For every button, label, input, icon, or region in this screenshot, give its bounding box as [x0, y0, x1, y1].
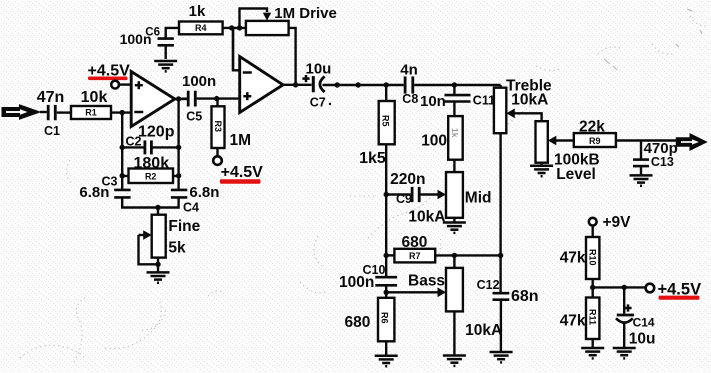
svg-text:C14: C14 — [633, 316, 655, 330]
svg-text:10kA: 10kA — [465, 322, 502, 339]
svg-text:C12: C12 — [477, 278, 500, 292]
svg-text:10n: 10n — [420, 93, 446, 110]
svg-text:R5: R5 — [380, 115, 390, 127]
svg-text:R10: R10 — [588, 249, 598, 266]
svg-text:C8: C8 — [402, 92, 418, 106]
svg-text:6.8n: 6.8n — [79, 184, 109, 201]
svg-text:R9: R9 — [589, 136, 601, 146]
svg-text:47k: 47k — [560, 313, 586, 330]
svg-text:680: 680 — [345, 314, 371, 331]
svg-text:R7: R7 — [409, 251, 421, 261]
svg-text:C5: C5 — [186, 110, 202, 124]
svg-text:1M Drive: 1M Drive — [274, 5, 337, 22]
svg-text:120p: 120p — [138, 124, 175, 141]
svg-text:C6: C6 — [145, 26, 160, 38]
svg-text:R4: R4 — [195, 23, 207, 33]
svg-text:10u: 10u — [306, 61, 332, 78]
svg-text:C4: C4 — [183, 201, 199, 215]
svg-text:1M: 1M — [230, 132, 252, 149]
svg-text:R1: R1 — [85, 108, 97, 118]
svg-text:180k: 180k — [134, 155, 170, 172]
svg-text:Fine: Fine — [168, 218, 200, 235]
svg-text:R2: R2 — [145, 171, 157, 181]
svg-text:C2: C2 — [126, 135, 142, 149]
svg-text:10kA: 10kA — [408, 209, 445, 226]
svg-text:+4.5V: +4.5V — [221, 164, 264, 181]
svg-text:Level: Level — [556, 166, 596, 183]
svg-text:Bass: Bass — [408, 272, 445, 289]
svg-text:10kA: 10kA — [511, 92, 548, 109]
svg-text:R11: R11 — [588, 309, 598, 325]
svg-text:C13: C13 — [651, 155, 674, 169]
svg-text:C11: C11 — [473, 94, 495, 108]
svg-text:10k: 10k — [81, 89, 108, 106]
svg-text:C1: C1 — [44, 124, 60, 138]
svg-text:10u: 10u — [629, 331, 656, 348]
svg-text:47k: 47k — [560, 250, 586, 267]
svg-text:680: 680 — [402, 234, 428, 251]
svg-text:47n: 47n — [37, 89, 65, 106]
svg-text:100: 100 — [421, 133, 447, 150]
svg-text:R3: R3 — [213, 121, 223, 133]
svg-text:1k: 1k — [189, 3, 206, 20]
svg-text:100n: 100n — [339, 274, 374, 291]
svg-text:Mid: Mid — [465, 190, 492, 207]
svg-text:C7: C7 — [310, 96, 326, 110]
svg-text:1k5: 1k5 — [359, 150, 386, 167]
svg-text:68n: 68n — [511, 288, 539, 305]
svg-text:6.8n: 6.8n — [189, 184, 219, 201]
svg-text:220n: 220n — [390, 171, 425, 188]
svg-text:5k: 5k — [168, 240, 186, 257]
svg-text:4n: 4n — [400, 62, 418, 79]
svg-text:R6: R6 — [380, 312, 390, 324]
svg-text:1k: 1k — [450, 128, 460, 138]
svg-text:+9V: +9V — [603, 214, 632, 231]
svg-text:22k: 22k — [579, 119, 605, 136]
svg-text:100n: 100n — [182, 73, 216, 90]
